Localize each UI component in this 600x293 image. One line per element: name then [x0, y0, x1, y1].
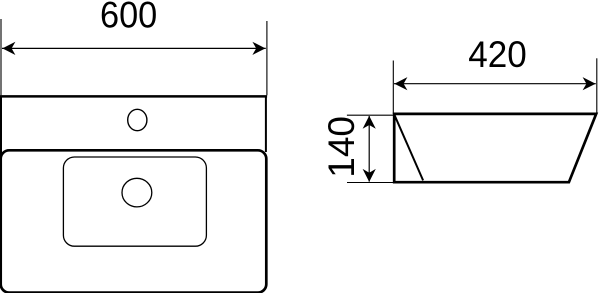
svg-text:420: 420: [468, 34, 527, 75]
svg-text:140: 140: [321, 116, 362, 178]
svg-text:600: 600: [100, 0, 157, 35]
